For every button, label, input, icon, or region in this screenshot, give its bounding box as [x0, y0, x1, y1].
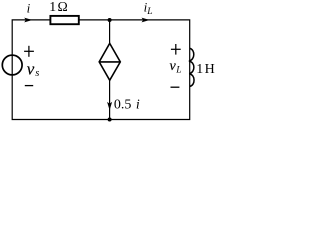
polarity plus vs — [24, 46, 34, 57]
current arrow iL — [142, 18, 150, 23]
node dot bottom — [108, 118, 112, 122]
polarity plus vL — [171, 44, 181, 55]
current arrow i — [24, 18, 32, 23]
svg-text:H: H — [205, 62, 215, 77]
svg-text:v: v — [27, 59, 35, 78]
svg-text:s: s — [35, 68, 39, 79]
polarity minus vs — [25, 85, 33, 87]
resistor R 1ohm (box) — [50, 16, 78, 24]
node dot top — [108, 18, 112, 22]
svg-text:Ω: Ω — [58, 0, 68, 14]
wire middle branch — [109, 20, 111, 120]
wire through source — [11, 55, 13, 75]
svg-text:L: L — [146, 7, 152, 17]
wire outer loop — [12, 20, 190, 120]
svg-text:1: 1 — [196, 62, 203, 77]
dependent current source diamond — [99, 43, 120, 80]
voltage source vs (circle) — [2, 55, 22, 75]
svg-text:L: L — [175, 66, 181, 76]
svg-text:i: i — [136, 98, 140, 113]
svg-text:0.5: 0.5 — [114, 98, 131, 113]
inductor L coil — [189, 48, 194, 86]
polarity minus vL — [171, 86, 180, 88]
arrow 0.5i direction — [107, 102, 112, 110]
svg-text:1: 1 — [49, 0, 56, 14]
svg-text:i: i — [27, 1, 31, 16]
